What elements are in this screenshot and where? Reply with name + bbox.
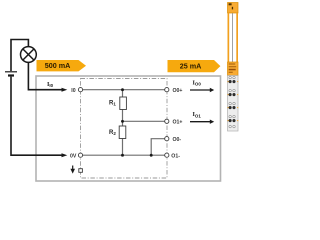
resistor R2	[109, 126, 126, 139]
module top block	[228, 3, 239, 14]
junction middle node	[121, 120, 124, 123]
wire top I0 to O0+	[81, 89, 167, 91]
svg-text:O1+: O1+	[173, 119, 183, 125]
earth arrow	[70, 166, 75, 174]
module label block	[228, 62, 239, 76]
svg-text:O1-: O1-	[171, 153, 180, 159]
wire battery bottom to 0V	[11, 77, 62, 156]
terminal O0-	[165, 137, 169, 141]
contact group 1	[228, 76, 239, 83]
contact group 5	[229, 125, 235, 127]
resistor R1	[109, 97, 126, 110]
wire branch to O0-	[151, 139, 167, 156]
arrowhead into 0V	[62, 153, 68, 157]
banner 500 mA	[37, 60, 87, 71]
terminal O0+	[165, 88, 169, 92]
arrowhead into I0	[62, 88, 68, 92]
svg-text:I0: I0	[71, 88, 75, 94]
wire middle node to O1+	[123, 120, 167, 122]
dashed terminal boundary	[81, 79, 168, 179]
module contact panel	[228, 76, 239, 132]
svg-text:500 mA: 500 mA	[45, 61, 71, 70]
contact group 4	[228, 115, 239, 122]
junction top node	[121, 88, 124, 91]
contact group 2	[228, 89, 239, 96]
contact group 3	[228, 102, 239, 109]
terminal I0	[78, 88, 82, 92]
module stem left rail	[228, 13, 230, 62]
EtherCAT terminal module	[228, 3, 239, 132]
battery	[5, 72, 17, 76]
arrow I_O0 out	[190, 79, 214, 92]
module stem right rail	[236, 13, 238, 62]
svg-text:O0+: O0+	[173, 88, 183, 94]
arrow I_O1 out	[190, 111, 214, 124]
svg-text:R1: R1	[109, 100, 116, 106]
terminal 0V	[78, 153, 82, 157]
wire bottom 0V to O1-	[81, 154, 167, 156]
lamp	[21, 47, 37, 63]
svg-text:R2: R2	[109, 130, 116, 136]
junction bottom node	[121, 154, 124, 157]
svg-text:O0-: O0-	[173, 137, 182, 143]
wire battery top to lamp	[11, 40, 28, 72]
terminal PE	[79, 169, 83, 173]
terminal housing box	[36, 76, 221, 181]
banner 25 mA	[168, 60, 221, 72]
svg-text:25 mA: 25 mA	[180, 62, 202, 71]
terminal O1+	[165, 119, 169, 123]
wire resistor chain	[122, 90, 124, 156]
junction branch node	[150, 154, 153, 157]
terminal O1-	[165, 153, 169, 157]
wire lamp to I0	[28, 62, 61, 89]
module stem center line	[232, 13, 234, 62]
svg-text:0V: 0V	[70, 153, 77, 159]
